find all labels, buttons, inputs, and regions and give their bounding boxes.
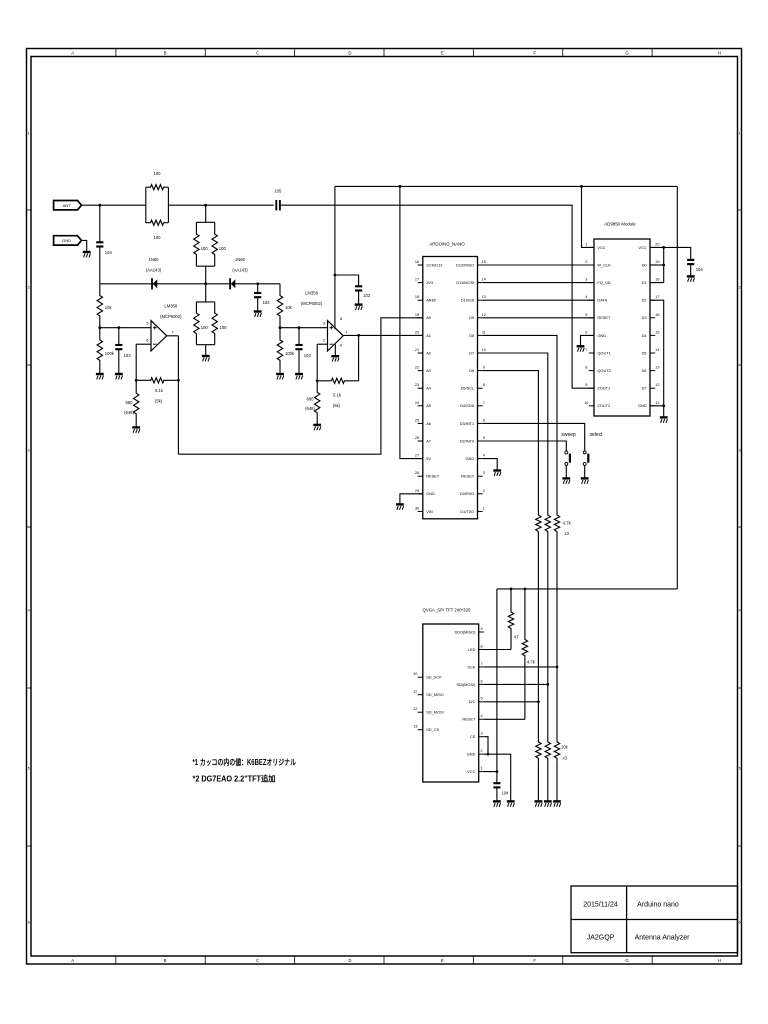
arduino right pin 8 D5/SCL xyxy=(478,387,483,389)
wire op1 minus input xyxy=(136,343,151,345)
svg-text:6: 6 xyxy=(483,418,485,422)
svg-text:E: E xyxy=(441,51,444,56)
arduino left pin 23 A4 xyxy=(418,387,423,389)
wire signal to ZOUT1 xyxy=(280,205,594,388)
svg-text:LM358: LM358 xyxy=(164,304,177,309)
svg-text:8: 8 xyxy=(483,383,485,387)
wire op2 minus input xyxy=(317,343,327,345)
svg-text:19: 19 xyxy=(655,260,659,264)
svg-text:1N60: 1N60 xyxy=(235,257,246,262)
ground select switch xyxy=(581,478,589,483)
svg-text:13: 13 xyxy=(655,366,659,370)
svg-text:SCK/D13: SCK/D13 xyxy=(426,262,442,267)
svg-text:103: 103 xyxy=(304,353,312,358)
svg-text:(648): (648) xyxy=(305,406,315,411)
svg-text:E: E xyxy=(441,958,444,963)
svg-text:27: 27 xyxy=(415,454,419,458)
title block divider horizontal xyxy=(571,919,738,921)
ad9850 left pin 3 FQ_UD xyxy=(589,282,594,284)
IC U3 AD9850 Module box xyxy=(594,239,650,416)
svg-text:4.7k: 4.7k xyxy=(563,520,572,525)
ad9850 right pin 11 GND xyxy=(650,405,655,407)
tft right pin 6 SDI(MOSI) xyxy=(479,683,484,685)
tft left pin 11 SD_MISO xyxy=(418,694,423,696)
svg-text:5: 5 xyxy=(585,313,587,317)
ground cap103 op2 xyxy=(295,374,303,379)
ground 680 op1 xyxy=(132,427,140,432)
wire DC net down xyxy=(537,702,539,740)
arduino left pin 20 A1 xyxy=(418,334,423,336)
capacitor C 104 at input xyxy=(99,205,101,242)
svg-text:Arduino nano: Arduino nano xyxy=(637,902,679,909)
wire 5V rail top xyxy=(335,185,677,187)
svg-text:7: 7 xyxy=(480,662,482,666)
wire op1 output down xyxy=(177,336,179,454)
capacitor 102 xyxy=(355,286,362,290)
switch SW1 sweep xyxy=(565,451,568,454)
capacitor 104 TFT xyxy=(493,783,500,787)
svg-text:100: 100 xyxy=(201,246,209,251)
wire TFT SCK xyxy=(484,666,557,668)
svg-text:(AA143): (AA143) xyxy=(146,268,162,273)
svg-text:100: 100 xyxy=(201,325,209,330)
ground cap103 op1 xyxy=(115,374,123,379)
wire op2 plus node xyxy=(280,327,328,329)
resistor 5.1k op1 feedback xyxy=(136,378,178,383)
svg-text:sweep: sweep xyxy=(561,432,576,438)
arduino right pin 14 D11/MOSI xyxy=(478,282,483,284)
wire arduino GND pin4 xyxy=(483,459,498,470)
svg-text:GND: GND xyxy=(62,238,71,243)
svg-text:ANT: ANT xyxy=(63,203,72,208)
junction op2 output xyxy=(357,334,360,337)
svg-text:12: 12 xyxy=(413,707,417,711)
ground 10k D6 xyxy=(535,801,543,806)
wire rail right edge down xyxy=(676,186,678,589)
resistor 100k op1 xyxy=(97,328,102,373)
op-amp U1B LM358 xyxy=(328,321,344,351)
svg-text:select: select xyxy=(589,432,603,438)
resistor 5.1k op2 feedback xyxy=(317,378,358,383)
ad9850 left pin 4 DATA xyxy=(589,299,594,301)
svg-text:H: H xyxy=(718,958,721,963)
svg-text:(MCP6002): (MCP6002) xyxy=(160,314,182,319)
wire D11/MOSI to FQ_UD xyxy=(483,282,594,284)
wire op1 output to A0 xyxy=(178,318,422,454)
svg-text:A3: A3 xyxy=(426,368,431,373)
junction TFT VCC xyxy=(496,770,499,773)
svg-text:100k: 100k xyxy=(285,351,295,356)
svg-text:1: 1 xyxy=(585,242,587,246)
svg-text:18: 18 xyxy=(655,278,659,282)
ad9850 right pin 12 D7 xyxy=(650,387,655,389)
junction CS-GND xyxy=(487,753,490,756)
svg-text:5: 5 xyxy=(483,436,485,440)
svg-text:A4: A4 xyxy=(426,386,432,391)
wire TFT DC xyxy=(484,701,539,703)
capacitor 105 series xyxy=(276,200,280,210)
svg-text:QVGA_SPI TFT 240*320: QVGA_SPI TFT 240*320 xyxy=(423,608,471,613)
arduino right pin 10 D7 xyxy=(478,352,483,354)
junction feedback op2 xyxy=(316,379,319,382)
grid row numbers left xyxy=(28,131,30,924)
svg-text:10k: 10k xyxy=(105,305,113,310)
svg-text:10: 10 xyxy=(482,348,486,352)
svg-text:100: 100 xyxy=(219,246,227,251)
tft right pin 2 GND xyxy=(479,753,484,755)
svg-text:5: 5 xyxy=(480,697,482,701)
wire TFT GND xyxy=(484,754,511,801)
tft right pin 8 LED xyxy=(479,648,484,650)
svg-text:D7: D7 xyxy=(642,386,647,391)
svg-text:21: 21 xyxy=(415,348,419,352)
junction rail 47ohm xyxy=(510,588,513,591)
svg-text:17: 17 xyxy=(655,295,659,299)
svg-text:104: 104 xyxy=(696,267,704,272)
svg-text:10k: 10k xyxy=(285,305,293,310)
wire op2 feedback left leg xyxy=(316,344,318,381)
svg-text:26: 26 xyxy=(415,436,419,440)
arduino left pin 30 VIN xyxy=(418,510,423,512)
svg-text:D6: D6 xyxy=(642,368,647,373)
resistor 47 backlight xyxy=(510,589,512,610)
grid row numbers right xyxy=(739,131,741,924)
wire D9 to DDS RESET xyxy=(483,317,594,319)
arduino right pin 1 D1/TXD xyxy=(478,510,483,512)
svg-text:D7: D7 xyxy=(469,350,474,355)
svg-text:GND: GND xyxy=(426,491,435,496)
svg-text:D10/SS: D10/SS xyxy=(461,298,475,303)
svg-text:16: 16 xyxy=(655,313,659,317)
resistor 680 op1 xyxy=(134,380,139,427)
svg-text:SD_SCK: SD_SCK xyxy=(426,675,442,680)
svg-text:2: 2 xyxy=(28,285,30,289)
svg-text:D8: D8 xyxy=(469,333,474,338)
title block box xyxy=(571,886,738,953)
wire ANT to bridge xyxy=(82,204,146,206)
svg-text:D4/SDA: D4/SDA xyxy=(460,403,474,408)
svg-text:(MCP6002): (MCP6002) xyxy=(301,301,323,306)
ground AD9850 pin6 xyxy=(577,346,585,351)
svg-text:100: 100 xyxy=(220,325,228,330)
svg-text:47: 47 xyxy=(514,635,519,640)
ad9850 left pin 9 ZOUT1 xyxy=(589,387,594,389)
svg-text:B: B xyxy=(164,958,167,963)
arduino right pin 2 D0/RXD xyxy=(478,493,483,495)
svg-text:680: 680 xyxy=(307,397,315,402)
wire op2 output to A1 xyxy=(343,334,423,336)
svg-text:22: 22 xyxy=(415,366,419,370)
svg-text:7: 7 xyxy=(483,401,485,405)
arduino right pin 6 D3/INT1 xyxy=(478,422,483,424)
svg-text:Antenna Analyzer: Antenna Analyzer xyxy=(635,935,691,942)
junction cap-bus xyxy=(256,282,259,285)
wire D12/MISO to W_CLK xyxy=(483,264,594,266)
svg-text:20: 20 xyxy=(415,330,419,334)
svg-text:D6: D6 xyxy=(469,368,474,373)
svg-text:18: 18 xyxy=(415,295,419,299)
svg-text:1: 1 xyxy=(483,506,485,510)
svg-text:7: 7 xyxy=(585,348,587,352)
svg-text:D1: D1 xyxy=(642,280,647,285)
svg-text:x3: x3 xyxy=(563,755,568,760)
wire 10k D6 to ground xyxy=(537,760,539,801)
svg-text:D/C: D/C xyxy=(469,699,476,704)
svg-text:D2: D2 xyxy=(642,298,647,303)
wire D8 resistor to SCK row xyxy=(556,534,558,667)
svg-text:A7: A7 xyxy=(426,438,431,443)
resistor 4.7k TFT reset pullup xyxy=(524,589,526,637)
wire SDI net down xyxy=(547,684,549,740)
arduino right pin 11 D8 xyxy=(478,334,483,336)
svg-text:6: 6 xyxy=(739,920,741,924)
tft right pin 7 SCK xyxy=(479,666,484,668)
svg-text:D5/SCL: D5/SCL xyxy=(461,386,475,391)
svg-text:12: 12 xyxy=(482,313,486,317)
ground cap102 xyxy=(355,305,363,310)
svg-text:100: 100 xyxy=(154,235,162,240)
svg-text:5V: 5V xyxy=(426,456,431,461)
svg-text:19: 19 xyxy=(415,313,419,317)
wire D7 resistor to SDI row xyxy=(547,534,549,685)
switch SW2 select xyxy=(583,451,586,454)
svg-text:ZOUT1: ZOUT1 xyxy=(597,386,610,391)
resistor 10k op1 xyxy=(97,284,102,328)
junction rail to AD9850 VCC xyxy=(580,185,583,188)
junction divider-bus xyxy=(204,282,207,285)
ad9850 left pin 7 QOUT1 xyxy=(589,352,594,354)
tft right pin 3 CS xyxy=(479,736,484,738)
resistor 10k D8 body xyxy=(554,740,559,761)
svg-text:1: 1 xyxy=(28,131,30,135)
ground AD9850 pin11 xyxy=(660,417,668,422)
svg-text:680: 680 xyxy=(126,400,134,405)
svg-text:ZOUT2: ZOUT2 xyxy=(597,403,610,408)
svg-text:FQ_UD: FQ_UD xyxy=(597,280,610,285)
junction 10k-100k op2 xyxy=(279,326,282,329)
wire SCK net down xyxy=(556,667,558,740)
svg-text:JA2GQP: JA2GQP xyxy=(587,935,615,942)
svg-text:C: C xyxy=(256,958,259,963)
junction rail to 5V pin xyxy=(399,185,402,188)
svg-text:3V3: 3V3 xyxy=(426,280,433,285)
svg-text:(648): (648) xyxy=(124,410,134,415)
svg-text:2: 2 xyxy=(585,260,587,264)
wire arduino GND pin29 xyxy=(400,494,423,504)
svg-text:A2: A2 xyxy=(426,350,431,355)
svg-text:5.1k: 5.1k xyxy=(155,388,164,393)
junction feedback op1 xyxy=(135,379,138,382)
wire D2/INT0 to sweep switch xyxy=(483,441,567,451)
arduino left pin 17 3V3 xyxy=(418,282,423,284)
svg-text:103: 103 xyxy=(124,353,132,358)
junction D0 tie xyxy=(662,264,665,267)
resistor 10k op2 xyxy=(277,284,282,328)
wire 10k D8 to ground xyxy=(556,760,558,801)
svg-text:H: H xyxy=(718,51,721,56)
junction cap103 op1 xyxy=(117,326,120,329)
junction DC net xyxy=(537,700,540,703)
grid column letters top xyxy=(71,51,721,56)
svg-text:5: 5 xyxy=(28,766,30,770)
svg-text:GND: GND xyxy=(597,333,606,338)
svg-text:12: 12 xyxy=(655,383,659,387)
svg-text:9: 9 xyxy=(480,627,482,631)
arduino right pin 5 D2/INT0 xyxy=(478,440,483,442)
svg-text:2015/11/24: 2015/11/24 xyxy=(583,902,618,909)
svg-text:GND: GND xyxy=(466,456,475,461)
resistor 10k D7 body xyxy=(545,740,550,761)
svg-text:3: 3 xyxy=(739,448,741,452)
svg-text:4: 4 xyxy=(585,295,587,299)
tft left pin 12 SD_MOSI xyxy=(418,711,423,713)
svg-text:4: 4 xyxy=(480,714,482,718)
ground 10k D8 xyxy=(553,801,561,806)
svg-text:13: 13 xyxy=(413,725,417,729)
svg-text:16: 16 xyxy=(415,260,419,264)
arduino left pin 19 A0 xyxy=(418,317,423,319)
arduino left pin 29 GND xyxy=(418,493,423,495)
arduino left pin 21 A2 xyxy=(418,352,423,354)
wire op2 output down to feedback xyxy=(358,335,360,380)
tft right pin 1 VCC xyxy=(479,771,484,773)
svg-text:*1 カッコの内の値：K6BEZオリジナル: *1 カッコの内の値：K6BEZオリジナル xyxy=(193,757,297,767)
resistor pair 100/100 upper divider xyxy=(205,205,207,222)
arduino right pin 4 GND xyxy=(478,458,483,460)
arduino left pin 26 A7 xyxy=(418,440,423,442)
ground below GND connector xyxy=(83,252,91,257)
svg-text:4: 4 xyxy=(28,608,30,612)
svg-text:SD_MOSI: SD_MOSI xyxy=(426,710,444,715)
wire op2 V- pin4 to ground xyxy=(334,344,336,355)
IC U2 ARDUINO_NANO box xyxy=(423,257,478,519)
tft right pin 4 RESET xyxy=(479,718,484,720)
svg-text:5: 5 xyxy=(739,766,741,770)
svg-text:15: 15 xyxy=(482,260,486,264)
wire TFT CS to GND xyxy=(484,737,488,755)
svg-text:C: C xyxy=(256,51,259,56)
op-amp U1A LM358 xyxy=(151,321,167,351)
grid column ticks xyxy=(116,49,652,965)
capacitor 104 AD9850 xyxy=(687,260,694,264)
ad9850 right pin 13 D6 xyxy=(650,370,655,372)
svg-text:A: A xyxy=(71,51,74,56)
resistor pair 100/100 series bridge arm xyxy=(145,187,147,223)
wire lower rail xyxy=(497,588,677,590)
resistor pair 100/100 lower divider xyxy=(205,284,207,302)
resistor 680 op2 xyxy=(315,381,320,425)
svg-text:5.1k: 5.1k xyxy=(333,393,342,398)
arduino left pin 16 SCK/D13 xyxy=(418,264,423,266)
svg-text:RESET: RESET xyxy=(461,474,475,479)
svg-text:3: 3 xyxy=(483,471,485,475)
ad9850 right pin 16 D3 xyxy=(650,317,655,319)
junction 10k-100k op1 xyxy=(98,326,101,329)
svg-text:D9: D9 xyxy=(469,315,474,320)
wire 10k D7 to ground xyxy=(547,760,549,801)
svg-text:15: 15 xyxy=(655,330,659,334)
svg-text:23: 23 xyxy=(415,383,419,387)
wire select switch to ground xyxy=(584,465,586,478)
node junction bridge divider xyxy=(204,204,207,207)
svg-text:F: F xyxy=(533,958,536,963)
IC U4 QVGA TFT box xyxy=(423,624,479,782)
ground 680 op2 xyxy=(313,425,321,430)
title block divider vertical xyxy=(626,886,628,953)
wire D3/INT1 to select switch xyxy=(483,423,585,451)
svg-text:F: F xyxy=(533,51,536,56)
ground 100k op1 xyxy=(99,373,101,374)
svg-text:(AA143): (AA143) xyxy=(232,268,248,273)
svg-text:3: 3 xyxy=(585,278,587,282)
ad9850 right pin 15 D4 xyxy=(650,334,655,336)
arduino right pin 15 D12/MISO xyxy=(478,264,483,266)
svg-text:1N60: 1N60 xyxy=(148,257,159,262)
arduino right pin 7 D4/SDA xyxy=(478,405,483,407)
resistor 4.7k D8 body xyxy=(554,513,559,534)
svg-text:SDI(MOSI): SDI(MOSI) xyxy=(456,682,476,687)
svg-text:25: 25 xyxy=(415,418,419,422)
capacitor 103 op1 xyxy=(118,328,120,345)
ad9850 right pin 18 D1 xyxy=(650,282,655,284)
svg-text:6: 6 xyxy=(480,679,482,683)
svg-text:4.7k: 4.7k xyxy=(527,660,536,665)
ad9850 right pin 20 VCC xyxy=(650,246,655,248)
svg-text:3: 3 xyxy=(480,732,482,736)
ground cap detector 2 xyxy=(254,312,262,317)
ground cap TFT xyxy=(493,801,501,806)
ad9850 left pin 2 W_CLK xyxy=(589,264,594,266)
svg-text:100: 100 xyxy=(154,171,162,176)
resistor 4.7k D6 body xyxy=(536,513,541,534)
ground sweep switch xyxy=(562,478,570,483)
svg-text:10: 10 xyxy=(584,401,588,405)
ad9850 right pin 17 D2 xyxy=(650,299,655,301)
svg-text:GND: GND xyxy=(467,752,476,757)
wire TFT SDI xyxy=(484,683,548,685)
arduino right pin 3 RESET xyxy=(478,475,483,477)
svg-text:x3: x3 xyxy=(565,531,570,536)
svg-text:1: 1 xyxy=(739,131,741,135)
wire GND connector down xyxy=(82,240,87,251)
tft right pin 5 D/C xyxy=(479,701,484,703)
wire D0 stub to tie xyxy=(650,264,664,266)
wire 4.7k to RESET pin xyxy=(484,718,525,720)
svg-text:11: 11 xyxy=(482,330,486,334)
svg-text:30: 30 xyxy=(415,506,419,510)
svg-text:104: 104 xyxy=(263,300,271,305)
svg-text:3: 3 xyxy=(28,448,30,452)
svg-text:SD_MISO: SD_MISO xyxy=(426,692,444,697)
svg-text:1: 1 xyxy=(480,767,482,771)
wire D2 tie to GND xyxy=(650,300,664,406)
svg-text:SD_CS: SD_CS xyxy=(426,727,439,732)
junction output-feedback op1 xyxy=(177,379,180,382)
arduino right pin 9 D6 xyxy=(478,370,483,372)
svg-text:A0: A0 xyxy=(426,315,432,320)
wire AD9850 VCC pin20 to cap xyxy=(650,247,691,259)
svg-text:100k: 100k xyxy=(105,351,115,356)
ground 100k op2 xyxy=(276,374,284,379)
svg-text:14: 14 xyxy=(482,278,486,282)
svg-text:6: 6 xyxy=(585,330,587,334)
svg-text:14: 14 xyxy=(655,348,659,352)
connector GND xyxy=(54,236,82,245)
junction SCK net xyxy=(556,666,559,669)
wire D10/SS to DATA xyxy=(483,299,594,301)
svg-text:D0/RXD: D0/RXD xyxy=(460,491,474,496)
svg-text:QOUT2: QOUT2 xyxy=(597,368,610,373)
